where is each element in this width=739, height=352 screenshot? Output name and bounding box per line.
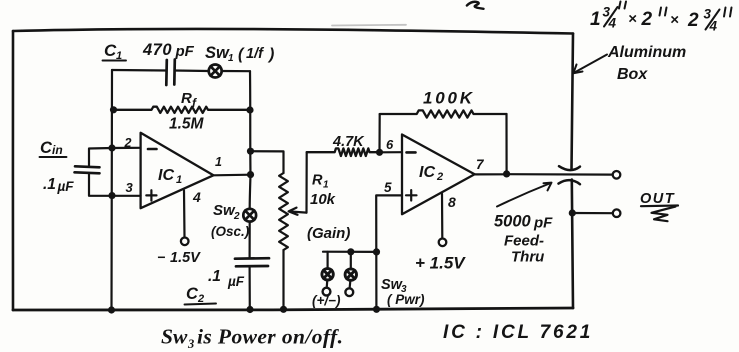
svg-text:Sw: Sw xyxy=(213,202,236,219)
svg-text:IC : ICL 7621: IC : ICL 7621 xyxy=(443,322,593,343)
svg-text:µF: µF xyxy=(57,179,75,194)
svg-text:(+/−): (+/−) xyxy=(312,293,341,308)
svg-text:2: 2 xyxy=(233,211,240,222)
svg-text:100K: 100K xyxy=(423,89,475,108)
svg-text:IC: IC xyxy=(158,167,174,184)
svg-text:1.5M: 1.5M xyxy=(169,116,205,133)
svg-text:1.5V: 1.5V xyxy=(170,250,201,266)
svg-text:R: R xyxy=(181,90,192,107)
svg-text:1/f: 1/f xyxy=(246,46,265,62)
svg-text:4: 4 xyxy=(608,16,617,31)
svg-text:Thru: Thru xyxy=(511,249,544,266)
svg-text:in: in xyxy=(52,143,63,157)
svg-text:470: 470 xyxy=(142,41,172,59)
svg-text:−: − xyxy=(157,249,165,265)
svg-text:(Gain): (Gain) xyxy=(307,225,350,242)
svg-text:1: 1 xyxy=(323,180,329,191)
svg-text:5000: 5000 xyxy=(494,213,532,231)
svg-text:3: 3 xyxy=(187,337,194,351)
svg-text:4: 4 xyxy=(192,189,201,205)
svg-text:1: 1 xyxy=(215,155,222,169)
svg-text:.1: .1 xyxy=(208,268,221,285)
svg-text:µF: µF xyxy=(227,274,245,289)
svg-text:4.7K: 4.7K xyxy=(332,134,365,150)
svg-text:+ 1.5V: + 1.5V xyxy=(415,254,466,273)
svg-text:(Osc.): (Osc.) xyxy=(211,224,250,239)
svg-text:Sw: Sw xyxy=(161,325,188,349)
svg-text:.1: .1 xyxy=(43,176,56,193)
svg-text:5: 5 xyxy=(384,180,392,195)
svg-text:1: 1 xyxy=(176,174,182,186)
svg-text:×: × xyxy=(670,12,679,29)
svg-text:Feed-: Feed- xyxy=(504,233,544,250)
svg-text:2: 2 xyxy=(436,171,443,183)
svg-text:2: 2 xyxy=(124,136,132,150)
svg-text:Aluminum: Aluminum xyxy=(607,44,686,61)
svg-text:1: 1 xyxy=(590,9,601,30)
svg-text:2: 2 xyxy=(641,9,653,30)
svg-text:is Power on/off.: is Power on/off. xyxy=(197,325,343,349)
svg-text:Sw: Sw xyxy=(205,44,230,62)
svg-text:6: 6 xyxy=(386,137,394,152)
svg-text:10k: 10k xyxy=(310,191,336,208)
svg-text:2: 2 xyxy=(687,10,699,31)
svg-text:( Pwr): ( Pwr) xyxy=(387,292,425,307)
svg-text:8: 8 xyxy=(448,194,456,210)
svg-text:): ) xyxy=(267,46,274,63)
svg-text:Box: Box xyxy=(617,66,648,83)
svg-text:R: R xyxy=(312,173,323,189)
svg-text:OUT: OUT xyxy=(640,191,675,207)
svg-text:4: 4 xyxy=(709,19,718,34)
svg-text:1: 1 xyxy=(228,53,234,64)
svg-text:pF: pF xyxy=(175,43,195,60)
svg-text:×: × xyxy=(628,11,637,28)
svg-text:3: 3 xyxy=(126,180,134,195)
svg-text:IC: IC xyxy=(419,164,435,181)
svg-text:pF: pF xyxy=(533,215,553,232)
